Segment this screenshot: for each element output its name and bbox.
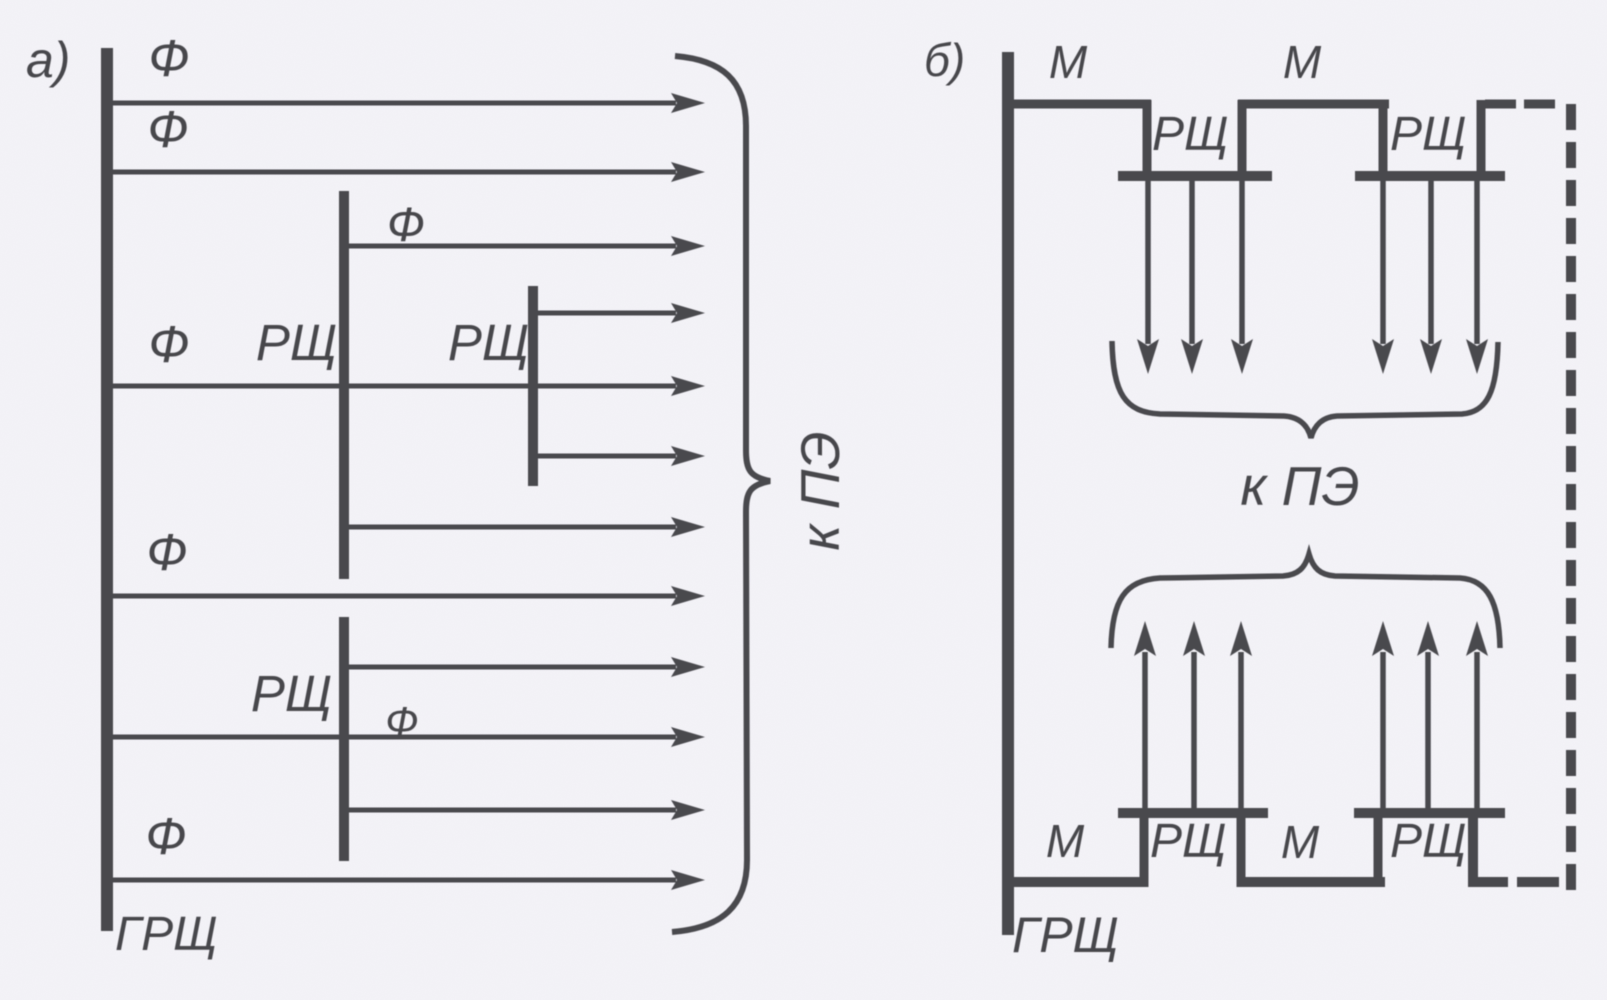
trunk M4 riser wire [1374, 809, 1383, 887]
busbar RShch4 (right scheme bottom) [1354, 808, 1505, 818]
trunk M1 wire [1013, 100, 1151, 109]
feeder F2 arrowhead [671, 162, 705, 182]
svg-text:РЩ: РЩ [1390, 815, 1466, 868]
feeder 11 arrowhead [671, 800, 705, 820]
feeder F8 wire from main bus [101, 594, 676, 599]
feeder 6 arrowhead [671, 446, 705, 466]
feeder F3 arrowhead [671, 236, 705, 256]
svg-text:РЩ: РЩ [448, 314, 529, 371]
svg-text:Ф: Ф [147, 101, 188, 159]
feeder F12 wire from main bus [101, 878, 676, 883]
continuation drop wire (bottom right) [1468, 809, 1478, 887]
load arrow 3 down [1239, 180, 1245, 344]
feeder F5 wire from main bus [101, 384, 676, 389]
feeder wire 9 from RShch3 [340, 665, 676, 670]
svg-text:ГРЩ: ГРЩ [115, 908, 217, 961]
feeder 9 arrowhead [671, 657, 705, 677]
feeder F5 arrowhead [671, 376, 705, 396]
brace (right scheme, upper group of arrows) [1112, 341, 1498, 438]
svg-text:Ф: Ф [387, 199, 425, 252]
busbar RShch1 (distribution board 1) [339, 191, 349, 579]
busbar GRShch (main switchboard bus, right scheme) [1002, 52, 1014, 935]
busbar GRShch (main switchboard bus, left scheme) [101, 48, 113, 931]
svg-text:РЩ: РЩ [1390, 108, 1466, 161]
load arrow 2 down [1189, 180, 1195, 344]
feeder F8 arrowhead [671, 586, 705, 606]
svg-text:к ПЭ: к ПЭ [1240, 455, 1359, 517]
feeder F1 arrowhead [671, 93, 705, 113]
brace (right scheme, lower group of arrows) [1111, 554, 1500, 648]
feeder wire 4 from RShch2 [529, 311, 676, 316]
svg-text:Ф: Ф [145, 808, 186, 866]
feeder F3 wire from RShch1 [340, 244, 676, 249]
trunk M4 wire (bottom) [1237, 877, 1385, 887]
svg-text:к ПЭ: к ПЭ [789, 431, 851, 550]
feeder F10 arrowhead [671, 727, 705, 747]
trunk M2 wire [1238, 100, 1389, 109]
continuation riser wire (top right) [1477, 100, 1486, 176]
feeder 4 arrowhead [671, 303, 705, 323]
busbar RShch3 (distribution board 3) [339, 617, 349, 861]
svg-text:Ф: Ф [148, 30, 189, 88]
svg-text:РЩ: РЩ [251, 665, 332, 722]
svg-text:б): б) [924, 34, 965, 86]
svg-text:Ф: Ф [146, 524, 187, 582]
load arrow 6 down [1474, 180, 1480, 344]
busbar RShch1 (right scheme top) [1118, 171, 1272, 181]
load arrow 9 up [1238, 652, 1244, 812]
svg-text:М: М [1281, 816, 1320, 868]
svg-text:РЩ: РЩ [1152, 108, 1228, 161]
load arrow 7 up [1142, 652, 1148, 812]
trunk M2 riser wire [1238, 100, 1247, 176]
trunk M4 drop wire [1237, 809, 1246, 887]
load arrow 4 down [1380, 180, 1386, 344]
busbar RShch2 (distribution board 2) [528, 286, 538, 486]
brace (left scheme, groups all feeders) [672, 56, 770, 932]
trunk M3 wire (bottom) [1013, 877, 1148, 887]
feeder wire 6 from RShch2 [529, 454, 676, 459]
svg-text:М: М [1046, 815, 1085, 867]
feeder F2 wire [101, 170, 676, 175]
svg-text:а): а) [26, 32, 70, 88]
svg-text:М: М [1283, 36, 1322, 88]
svg-text:ГРЩ: ГРЩ [1012, 907, 1119, 963]
feeder wire 11 from RShch3 [340, 808, 676, 813]
feeder F10 wire from main bus [101, 735, 676, 740]
load arrow 11 up [1425, 652, 1431, 812]
svg-text:Ф: Ф [385, 698, 418, 745]
trunk M2 drop wire [1379, 100, 1388, 176]
trunk M1 drop wire [1143, 100, 1152, 176]
load arrow 5 down [1428, 180, 1434, 344]
svg-text:РЩ: РЩ [256, 314, 337, 371]
load arrow 8 up [1191, 652, 1197, 812]
continuation dashed bus (right side) [1566, 104, 1576, 890]
continuation dashed trunk (top) [1485, 100, 1561, 109]
load arrow 1 down [1145, 180, 1151, 344]
feeder 7 arrowhead [671, 517, 705, 537]
trunk M3 riser wire [1140, 809, 1149, 887]
feeder F1 wire [101, 101, 676, 106]
busbar RShch2 (right scheme top) [1355, 171, 1505, 181]
busbar RShch3 (right scheme bottom) [1118, 808, 1268, 818]
load arrow 10 up [1380, 652, 1386, 812]
feeder wire 7 from RShch1 [340, 525, 676, 530]
continuation solid stub (bottom) [1469, 877, 1508, 887]
svg-text:Ф: Ф [148, 316, 189, 374]
load arrow 12 up [1474, 652, 1480, 812]
svg-text:РЩ: РЩ [1150, 815, 1226, 868]
continuation dashed trunk (bottom) [1517, 877, 1559, 887]
feeder F12 arrowhead [671, 870, 705, 890]
svg-text:М: М [1049, 36, 1088, 88]
